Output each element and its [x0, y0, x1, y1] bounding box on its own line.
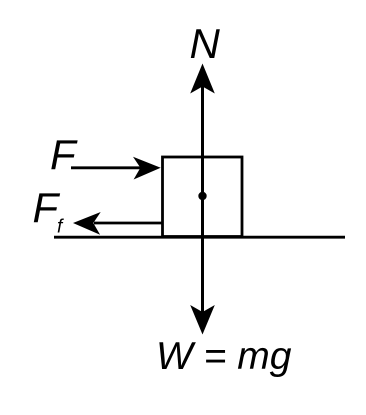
svg-text:N: N	[190, 20, 221, 67]
svg-text:F: F	[50, 131, 78, 178]
svg-text:W = mg: W = mg	[156, 335, 292, 378]
